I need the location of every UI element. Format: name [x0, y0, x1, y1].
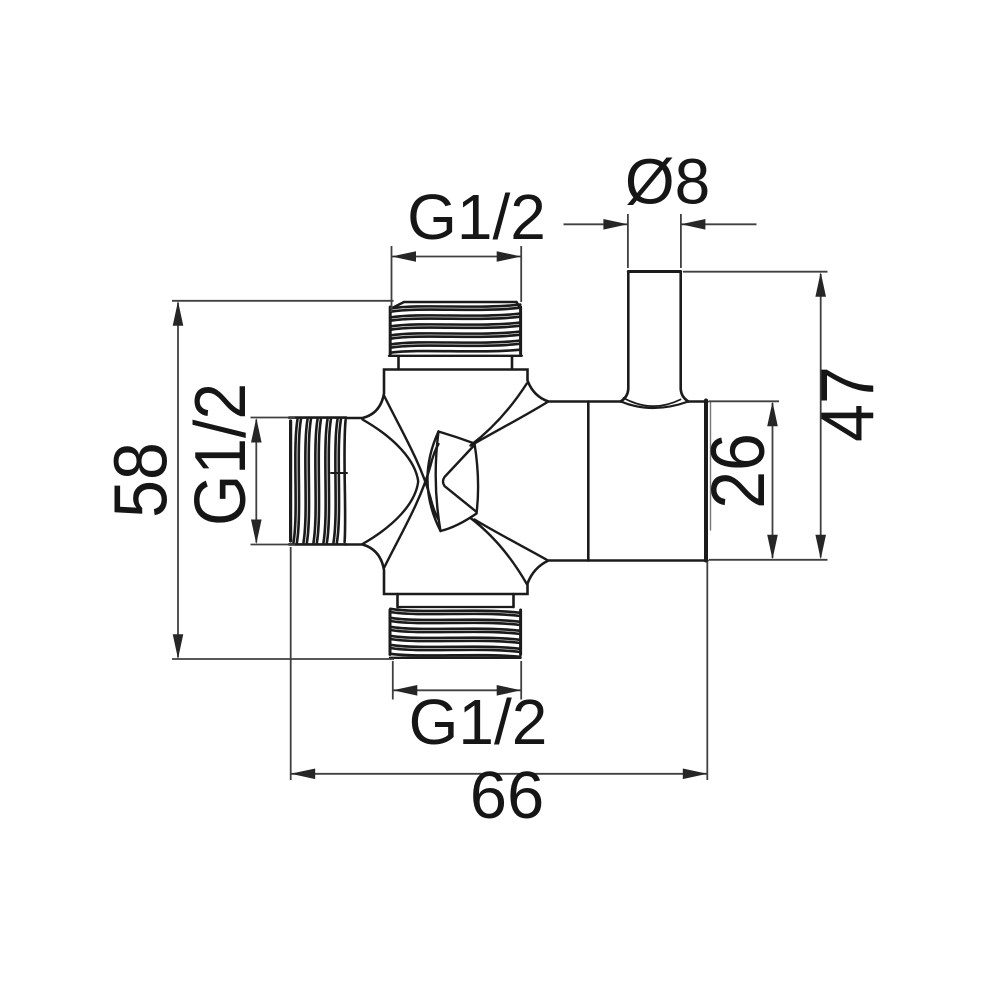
arrow bottom G1/2 left	[393, 685, 418, 696]
bottom port thread G1/2 outline	[390, 610, 521, 658]
right cylinder left edge	[587, 402, 590, 561]
body web curve upper-right U2	[475, 402, 548, 444]
dimension 26 extension line	[709, 400, 779, 402]
diverter cone bottom edge	[441, 514, 477, 532]
diverter cone tangent upper	[443, 446, 476, 512]
arrow 26 down	[767, 535, 778, 560]
body web curve upper-left A	[384, 396, 439, 520]
top port thread coils	[391, 305, 521, 353]
top port thread G1/2 outline	[389, 302, 522, 356]
arrow 58 up	[173, 301, 184, 326]
svg-text:66: 66	[470, 758, 545, 833]
dimension 26 line	[772, 403, 774, 558]
dimension 58 line	[177, 303, 179, 658]
svg-text:G1/2: G1/2	[407, 181, 546, 253]
arrow 58 down	[173, 634, 184, 659]
dimension 66 extension lines	[290, 547, 292, 780]
arrow left G1/2 down	[251, 520, 262, 545]
arrow 26 up	[767, 402, 778, 427]
arrow Ø8 right	[681, 219, 706, 230]
body web curve lower-right V2	[475, 520, 549, 561]
arrowheads	[173, 219, 826, 779]
dimension 58 extension lines	[172, 300, 394, 302]
dimension left G1/2 extension ticks	[251, 417, 296, 419]
dimension top G1/2 line	[392, 256, 522, 258]
dimension 47 line	[820, 274, 822, 558]
pipe base saddle	[621, 402, 689, 409]
outlet pipe Ø8	[621, 272, 689, 402]
left port thread G1/2 outline	[289, 418, 346, 545]
diverter cone top edge	[439, 432, 475, 444]
arrow top G1/2 left	[392, 251, 417, 262]
svg-text:G1/2: G1/2	[409, 686, 548, 758]
dimension left G1/2 line	[255, 420, 257, 543]
arrow 66 right	[683, 769, 708, 780]
svg-text:Ø8: Ø8	[625, 146, 710, 218]
body web curve lower-right V1	[471, 518, 527, 584]
dimension top G1/2 extension lines	[391, 246, 393, 312]
arrow left G1/2 up	[251, 418, 262, 443]
left port thread coils	[294, 420, 346, 543]
body web curve lower-left A'	[384, 444, 439, 568]
dimension 47 extension lines	[683, 271, 828, 273]
diverter cone cap lens	[427, 432, 478, 532]
svg-text:26: 26	[696, 433, 780, 509]
dimension bottom G1/2 line	[393, 689, 521, 691]
arrow bottom G1/2 right	[497, 685, 522, 696]
body web curve upper-right U1	[471, 384, 527, 446]
svg-text:58: 58	[100, 442, 184, 518]
left port bell B	[363, 420, 419, 545]
arrow 47 down	[815, 535, 826, 560]
arrow 47 up	[815, 272, 826, 297]
bottom collar	[398, 594, 514, 607]
arrow Ø8 left	[603, 219, 628, 230]
right cylinder right edge	[704, 401, 708, 561]
svg-text:47: 47	[806, 366, 890, 442]
svg-text:G1/2: G1/2	[179, 383, 261, 526]
bottom port thread coils	[390, 609, 520, 657]
arrow top G1/2 right	[497, 251, 522, 262]
diverter cone right arc	[475, 444, 479, 514]
dimension Ø8 lines	[564, 223, 628, 225]
left thread runout tick	[331, 472, 347, 474]
valve body outline lower	[346, 545, 708, 595]
dimension 66 line	[291, 773, 708, 775]
valve body outline upper	[346, 370, 621, 419]
dimension Ø8 extension lines	[627, 214, 629, 268]
arrow 66 left	[291, 769, 316, 780]
dimension bottom G1/2 extension lines	[392, 661, 394, 700]
top collar	[399, 356, 513, 369]
